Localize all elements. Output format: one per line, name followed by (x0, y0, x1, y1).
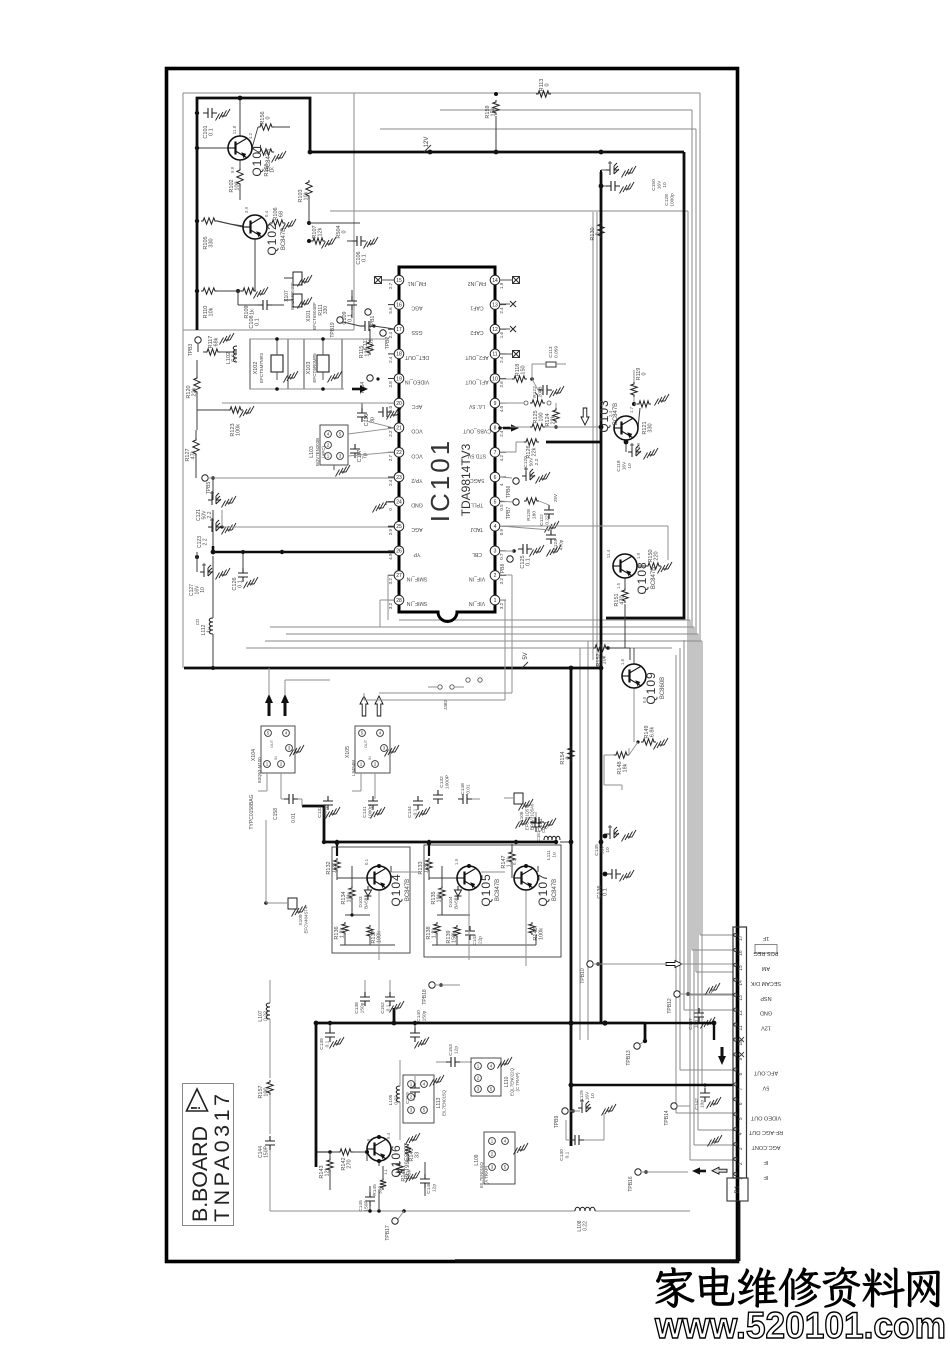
svg-text:C128: C128 (664, 194, 670, 206)
svg-text:VIF_IN: VIF_IN (469, 600, 485, 606)
svg-text:1u: 1u (552, 852, 558, 858)
wire VIF pins down (500, 574, 512, 576)
svg-text:5: 5 (494, 499, 497, 505)
capacitor C101 0.1 (195, 108, 230, 139)
svg-text:0.5: 0.5 (499, 504, 504, 511)
resistor R146 100k (529, 922, 545, 941)
svg-text:BC847B: BC847B (552, 879, 558, 901)
svg-text:24: 24 (396, 499, 402, 505)
svg-text:1000p: 1000p (323, 805, 329, 819)
svg-text:0: 0 (545, 83, 551, 86)
svg-text:0.1: 0.1 (565, 1151, 571, 1158)
arrow X105 input hollow 2 (375, 696, 383, 716)
filter L113 EIL7EN015Q (403, 1075, 447, 1123)
svg-text:TNPA0317: TNPA0317 (210, 1094, 234, 1222)
svg-text:150p: 150p (422, 1010, 428, 1021)
wire thick bottom-right border emphasis (455, 1259, 739, 1262)
resistor R147 1.2k (501, 844, 515, 872)
wire Q105 base (428, 874, 430, 878)
resistor R109 1k (217, 239, 268, 319)
svg-text:YP/2: YP/2 (411, 477, 422, 483)
svg-text:0: 0 (566, 756, 572, 759)
svg-text:1.7: 1.7 (629, 406, 634, 413)
ground NSP (706, 983, 721, 995)
svg-text:27: 27 (396, 573, 402, 579)
resistor R150 220 (637, 549, 672, 573)
transistor Q101 BC847B (228, 136, 272, 177)
svg-text:16V: 16V (657, 180, 663, 189)
inductor L107 0.22 (258, 980, 270, 1078)
pin 16 POS REG of connector B1 (734, 948, 779, 956)
svg-text:8: 8 (494, 426, 497, 432)
capacitor C140 150p (410, 1010, 429, 1049)
svg-text:2.7: 2.7 (388, 282, 393, 289)
resistor R142 270 (328, 1149, 367, 1171)
svg-text:VIDEO_IN: VIDEO_IN (405, 378, 429, 384)
svg-text:10p: 10p (700, 1100, 706, 1108)
svg-text:C145: C145 (358, 1200, 364, 1212)
svg-text:BA582: BA582 (454, 895, 459, 909)
svg-text:22k: 22k (551, 415, 557, 424)
test point TPB19 (330, 317, 360, 338)
test point TPB10 (580, 961, 665, 984)
wire box around tuner AGC block (353, 93, 355, 330)
filter X103 EFCT6R0M#5 (304, 339, 342, 389)
capacitor C130 0.1 (559, 1113, 604, 1161)
svg-text:OUT: OUT (270, 739, 274, 748)
pin 26 YP of IC101 (388, 546, 420, 560)
resistor R134 10k (341, 886, 355, 905)
pin 5 VIDEO OUT of connector B1 (734, 1113, 781, 1121)
inductor L105 0.22 (388, 1060, 400, 1140)
resistor R143 12k (319, 1152, 333, 1180)
svg-text:470: 470 (620, 595, 626, 604)
capacitor C139 0.1 (319, 1021, 344, 1050)
wire cluster verticals right side (683, 640, 685, 1010)
pin 8 CVBS_OUT of IC101 (462, 423, 506, 437)
wire Q104 collector to Q105 (391, 871, 420, 873)
transistor Q102 BC847B (243, 215, 287, 256)
capacitor C151b (530, 817, 556, 841)
arrow IF solid left (699, 1170, 706, 1173)
svg-text:NSP: NSP (760, 995, 772, 1001)
svg-text:100k: 100k (539, 928, 545, 940)
svg-text:1.1: 1.1 (383, 1168, 388, 1174)
svg-text:11.4: 11.4 (606, 549, 611, 558)
arrow X105 input hollow (360, 696, 368, 716)
svg-text:4.2: 4.2 (248, 132, 253, 139)
svg-text:C131: C131 (362, 806, 368, 818)
svg-text:C113: C113 (548, 346, 554, 357)
connector B1 tag box (727, 1178, 748, 1201)
label 5V (522, 652, 529, 668)
pin 4 RF-AGC OUT of connector B1 (734, 1128, 783, 1136)
pin 4 TADJ of IC101 (470, 521, 506, 535)
capacitor C152 0.1 (380, 980, 404, 1014)
svg-text:DET_OUT: DET_OUT (404, 354, 429, 360)
svg-text:26: 26 (396, 549, 402, 555)
svg-text:(C TRAP): (C TRAP) (515, 1072, 520, 1091)
pin 15 FM_IN1 of IC101 (388, 275, 426, 289)
svg-text:TPB14: TPB14 (664, 1110, 670, 1126)
svg-text:2.2: 2.2 (388, 430, 393, 437)
wire thick branch x=571 down (570, 668, 573, 1146)
capacitor C144 150P (258, 1136, 383, 1211)
svg-text:BC847B: BC847B (281, 228, 287, 250)
svg-text:12V: 12V (424, 137, 430, 148)
wire Q107 base (511, 866, 513, 878)
wire R148 left (604, 754, 614, 756)
svg-text:TPB3: TPB3 (188, 344, 194, 357)
svg-text:11: 11 (738, 1025, 744, 1030)
wire X105 tops to VIF (364, 699, 505, 701)
wire Q102 base link (217, 221, 230, 224)
arrow hollow AM (666, 961, 682, 968)
capacitor C138 150p (354, 980, 370, 1014)
capacitor pin20 bypass (378, 407, 401, 420)
svg-text:12p: 12p (454, 1046, 460, 1054)
resistor R128 180 (524, 498, 539, 521)
svg-text:Q106: Q106 (389, 1144, 403, 1177)
svg-text:0.7: 0.7 (499, 553, 504, 560)
wire bus right x=700 to connector pin17 (699, 93, 701, 935)
svg-text:C139: C139 (319, 1038, 325, 1050)
pin 2 VIF_IN of IC101 (469, 571, 506, 585)
svg-text:0.1: 0.1 (386, 1004, 392, 1011)
svg-text:C143: C143 (472, 934, 477, 945)
wire Q104 emitter resistors (351, 866, 353, 886)
capacitor C114 (532, 379, 564, 398)
resistor R115 120 (359, 329, 373, 358)
svg-text:150p: 150p (360, 1002, 366, 1013)
resistor R136 1.2k (334, 922, 348, 940)
pin 14 SECAM D/K of connector B1 (734, 978, 781, 986)
svg-text:X106: X106 (519, 811, 524, 822)
svg-text:0.1: 0.1 (526, 558, 532, 566)
svg-text:SMIF_IN: SMIF_IN (407, 575, 428, 581)
no-connect pin13 CAF1 (500, 301, 516, 307)
svg-text:C135: C135 (594, 844, 600, 856)
resistor R145 330 (372, 1166, 388, 1196)
wire pin21 pin22 to L103 (348, 428, 394, 434)
resistor R156 0 (252, 111, 290, 148)
svg-text:17: 17 (738, 935, 744, 941)
svg-text:C151: C151 (536, 830, 541, 841)
wire SAW outputs down (266, 773, 268, 791)
svg-text:0: 0 (266, 116, 272, 119)
svg-text:L/L’.5V: L/L’.5V (469, 403, 485, 409)
transistor Q104 BC847B (367, 866, 411, 907)
svg-text:330: 330 (323, 306, 329, 315)
svg-text:(A TRAP): (A TRAP) (484, 1165, 489, 1184)
capacitor C111 0.01 (360, 321, 394, 350)
svg-text:TPB18: TPB18 (422, 989, 428, 1005)
wire base Q106 (366, 1152, 368, 1161)
svg-text:17: 17 (396, 327, 402, 333)
svg-text:12V: 12V (761, 1025, 771, 1031)
svg-text:1.5: 1.5 (616, 582, 621, 589)
test point TPB18 (422, 982, 460, 1005)
svg-text:C129: C129 (579, 1090, 585, 1102)
transistor Q109 BC860B (622, 664, 666, 705)
svg-text:120: 120 (365, 347, 371, 356)
svg-text:9: 9 (738, 1058, 744, 1061)
svg-text:18k: 18k (623, 763, 629, 772)
svg-text:C146: C146 (426, 1182, 432, 1194)
resistor R113 0 (494, 79, 551, 98)
test point TPB8 (500, 556, 513, 576)
svg-text:C122: C122 (539, 514, 545, 526)
svg-text:10: 10 (662, 182, 668, 188)
svg-text:9: 9 (494, 401, 497, 407)
capacitor C124 470p (500, 526, 565, 557)
svg-text:1.6: 1.6 (620, 658, 625, 665)
pin 10 AF1_OUT of IC101 (464, 374, 506, 388)
svg-text:AF2_OUT: AF2_OUT (464, 354, 488, 360)
svg-text:13: 13 (492, 302, 498, 308)
filter L110 EQL7EN022Q C TRAP (471, 1057, 520, 1096)
wire bus y=211 (330, 210, 688, 212)
svg-text:14: 14 (492, 278, 498, 284)
svg-text:SECAM D/K: SECAM D/K (751, 980, 782, 986)
resistor R139 150k (446, 925, 460, 944)
capacitor C148 0.01 (458, 783, 480, 804)
svg-text:2: 2 (738, 1162, 744, 1165)
junction dots on supply buses (195, 96, 717, 1163)
wire C150 link (600, 170, 602, 186)
svg-text:TPB8: TPB8 (500, 564, 506, 577)
svg-text:TPB6: TPB6 (506, 486, 512, 499)
svg-text:TPB9: TPB9 (554, 1116, 560, 1129)
resistor R159 15k (485, 100, 499, 154)
svg-text:0: 0 (642, 372, 648, 375)
svg-text:20kB: 20kB (538, 387, 544, 398)
test point TPB13 (626, 1039, 647, 1066)
inductor L102 5.6 (220, 333, 238, 364)
resistor R504 0 (309, 223, 360, 239)
test point TPB4 (360, 375, 380, 394)
svg-text:R145: R145 (372, 1184, 378, 1196)
capacitor C142 10p (694, 1083, 721, 1109)
svg-text:33: 33 (415, 1152, 421, 1158)
capacitor C122 0.22 (539, 494, 559, 533)
wire Q104 base (336, 874, 338, 878)
svg-text:1000p: 1000p (368, 805, 374, 819)
inductor L111 1u (541, 827, 573, 860)
test point TPB2 (380, 330, 391, 349)
capacitor C126 0.1 (232, 550, 258, 591)
svg-text:180: 180 (532, 511, 538, 519)
svg-text:www.520101.com: www.520101.com (654, 1305, 946, 1345)
capacitor C158 0.01 (273, 794, 302, 823)
svg-text:CBL: CBL (472, 551, 482, 557)
svg-text:0.1: 0.1 (362, 254, 368, 262)
svg-text:D103: D103 (358, 896, 363, 907)
svg-text:2.4: 2.4 (499, 356, 504, 363)
svg-text:0.9: 0.9 (642, 696, 647, 703)
svg-text:10k: 10k (602, 655, 608, 664)
svg-text:330: 330 (648, 423, 654, 432)
svg-text:0.9: 0.9 (499, 528, 504, 535)
svg-text:TPB10: TPB10 (580, 968, 586, 984)
svg-text:D104: D104 (448, 896, 453, 907)
svg-text:C138: C138 (354, 1002, 360, 1014)
svg-text:EFCT6R0M#5: EFCT6R0M#5 (312, 353, 317, 383)
svg-text:L111: L111 (546, 850, 552, 860)
capacitor C159 8p (405, 1076, 420, 1104)
svg-text:VIDEO OUT: VIDEO OUT (750, 1114, 781, 1120)
pin 27 SMIF_IN of IC101 (388, 571, 427, 585)
test point TPB17 (385, 1209, 406, 1240)
svg-text:5AGC: 5AGC (470, 477, 484, 483)
arrow hollow AF1 (581, 408, 589, 425)
svg-text:2.4: 2.4 (388, 479, 393, 486)
svg-text:(APC): (APC) (321, 445, 326, 457)
box around Q105 Q107 stage (424, 845, 561, 957)
ground pin24 (373, 501, 395, 513)
svg-text:1k: 1k (250, 309, 256, 315)
svg-text:SMIF_IN: SMIF_IN (407, 600, 428, 606)
terminal pin15 FM_IN1 (375, 277, 395, 284)
resistor R118 150 (500, 364, 534, 383)
svg-text:C152: C152 (380, 1002, 386, 1014)
svg-text:0.1: 0.1 (364, 858, 369, 865)
connector B1 body (733, 927, 747, 1178)
svg-text:C153: C153 (448, 1044, 454, 1056)
svg-text:L9454M: L9454M (351, 760, 356, 776)
wire thick right box x=684 (606, 152, 684, 618)
svg-text:!: ! (188, 1106, 203, 1110)
svg-text:IC101: IC101 (425, 438, 455, 522)
resistor R110 10k (195, 288, 217, 319)
resistor R106 68 (267, 207, 296, 230)
svg-text:BC847B: BC847B (266, 149, 272, 171)
svg-text:9.4: 9.4 (386, 1132, 391, 1139)
svg-text:AGC: AGC (411, 305, 422, 311)
svg-text:2.4: 2.4 (499, 430, 504, 437)
test point TPB9 (554, 1108, 580, 1128)
svg-text:0.22: 0.22 (545, 515, 551, 525)
filter X101 EFCT6504BF (284, 294, 329, 330)
svg-text:83Q53-M100: 83Q53-M100 (257, 757, 262, 783)
wire AFC pin20 (222, 402, 394, 404)
capacitor C135 16V 10 electrolytic (594, 825, 636, 856)
svg-text:R122: R122 (532, 386, 538, 398)
wire 5V row thick (571, 1084, 733, 1086)
svg-text:10: 10 (605, 847, 611, 853)
wire bus y=129 (380, 128, 696, 130)
svg-text:BC847B: BC847B (405, 879, 411, 901)
capacitor C106 0.1 (347, 236, 378, 265)
svg-text:GSS: GSS (411, 329, 422, 335)
test point TPB3 (188, 337, 201, 356)
pin 17 1F of connector B1 (734, 933, 769, 941)
svg-text:BC847B: BC847B (651, 567, 657, 589)
resistor R132 1.2k (326, 858, 340, 880)
terminal pin14 FM_IN2 (500, 277, 520, 284)
svg-text:0.1: 0.1 (603, 888, 609, 896)
resistor R124 22k (545, 403, 559, 429)
svg-text:TYPC0158BAG: TYPC0158BAG (249, 794, 255, 829)
pin 3 CBL of IC101 (472, 546, 506, 560)
svg-text:14: 14 (738, 980, 744, 986)
svg-text:22: 22 (396, 450, 402, 456)
svg-text:CAF2: CAF2 (470, 329, 483, 335)
arrow CVBS out (503, 427, 512, 430)
svg-text:TPB1: TPB1 (370, 316, 376, 329)
svg-text:EFCT5M7M#3: EFCT5M7M#3 (259, 353, 264, 383)
pin 9 NC of connector B1 (734, 1052, 744, 1060)
test point TPB7 (500, 499, 519, 519)
pin 2 IF of connector B1 (734, 1158, 769, 1166)
capacitor C145 150P (358, 1186, 375, 1213)
svg-text:220: 220 (654, 551, 660, 560)
wire thick YP pin26 y=552 (213, 546, 399, 552)
pin 10 NC of connector B1 (734, 1037, 744, 1046)
resistor R148 18k (614, 748, 629, 775)
wire Q105 emitter resistors (441, 866, 443, 886)
label 12V (424, 137, 432, 154)
wire thick 5V bus y=668 (184, 667, 601, 670)
resistor R144 1.5k (397, 1162, 420, 1183)
capacitor C127 16V 10 electrolytic (189, 552, 230, 596)
svg-text:4.9: 4.9 (636, 442, 641, 449)
capacitor C153 12p (436, 1044, 472, 1067)
svg-text:1.9: 1.9 (454, 858, 459, 865)
svg-text:AM: AM (761, 965, 770, 971)
transistor Q103 BC847B (597, 399, 638, 440)
svg-text:3: 3 (738, 1147, 744, 1150)
resistor R137 100k (367, 925, 383, 944)
svg-text:0.22: 0.22 (264, 1011, 270, 1021)
svg-text:BC847B: BC847B (613, 403, 619, 425)
test point TPB12 (667, 991, 733, 1014)
capacitor C128 1000p (599, 181, 676, 207)
svg-text:IN: IN (368, 756, 372, 760)
svg-text:1u: 1u (207, 627, 213, 633)
voltage annotations near transistors (230, 125, 647, 1141)
svg-text:16: 16 (738, 950, 744, 956)
pin 8 AFC.OUT of connector B1 (734, 1068, 778, 1076)
test point TPB14 (664, 1103, 690, 1126)
svg-text:8: 8 (738, 1073, 744, 1076)
svg-text:100k: 100k (236, 424, 242, 436)
svg-text:Q107: Q107 (536, 873, 550, 906)
resistor R130 0 (590, 222, 604, 241)
wire horizontals below IC (399, 619, 690, 621)
svg-text:18: 18 (396, 352, 402, 358)
svg-text:TPB5: TPB5 (206, 482, 212, 495)
svg-text:TPB19: TPB19 (330, 322, 336, 338)
resistor R151 470 (614, 578, 628, 648)
svg-text:6.8k: 6.8k (650, 727, 656, 738)
svg-text:4.2: 4.2 (499, 455, 504, 462)
ground pin25 stub (388, 526, 394, 528)
arrow X104 input solid 2 (284, 702, 287, 716)
pin 23 YP/2 of IC101 (388, 472, 423, 486)
svg-text:16V: 16V (585, 1091, 591, 1100)
svg-text:3: 3 (494, 549, 497, 555)
svg-text:0.1: 0.1 (348, 314, 354, 322)
svg-text:AGC.CONT: AGC.CONT (751, 1144, 781, 1150)
capacitor C143 22p (465, 926, 483, 945)
svg-text:2.2: 2.2 (534, 458, 540, 465)
transistor Q107 BC847B (514, 866, 558, 907)
capacitor C125 0.1 (500, 544, 544, 569)
svg-text:1.2k: 1.2k (332, 863, 338, 874)
svg-text:1.2k: 1.2k (424, 863, 430, 874)
svg-text:2.2: 2.2 (207, 511, 213, 518)
